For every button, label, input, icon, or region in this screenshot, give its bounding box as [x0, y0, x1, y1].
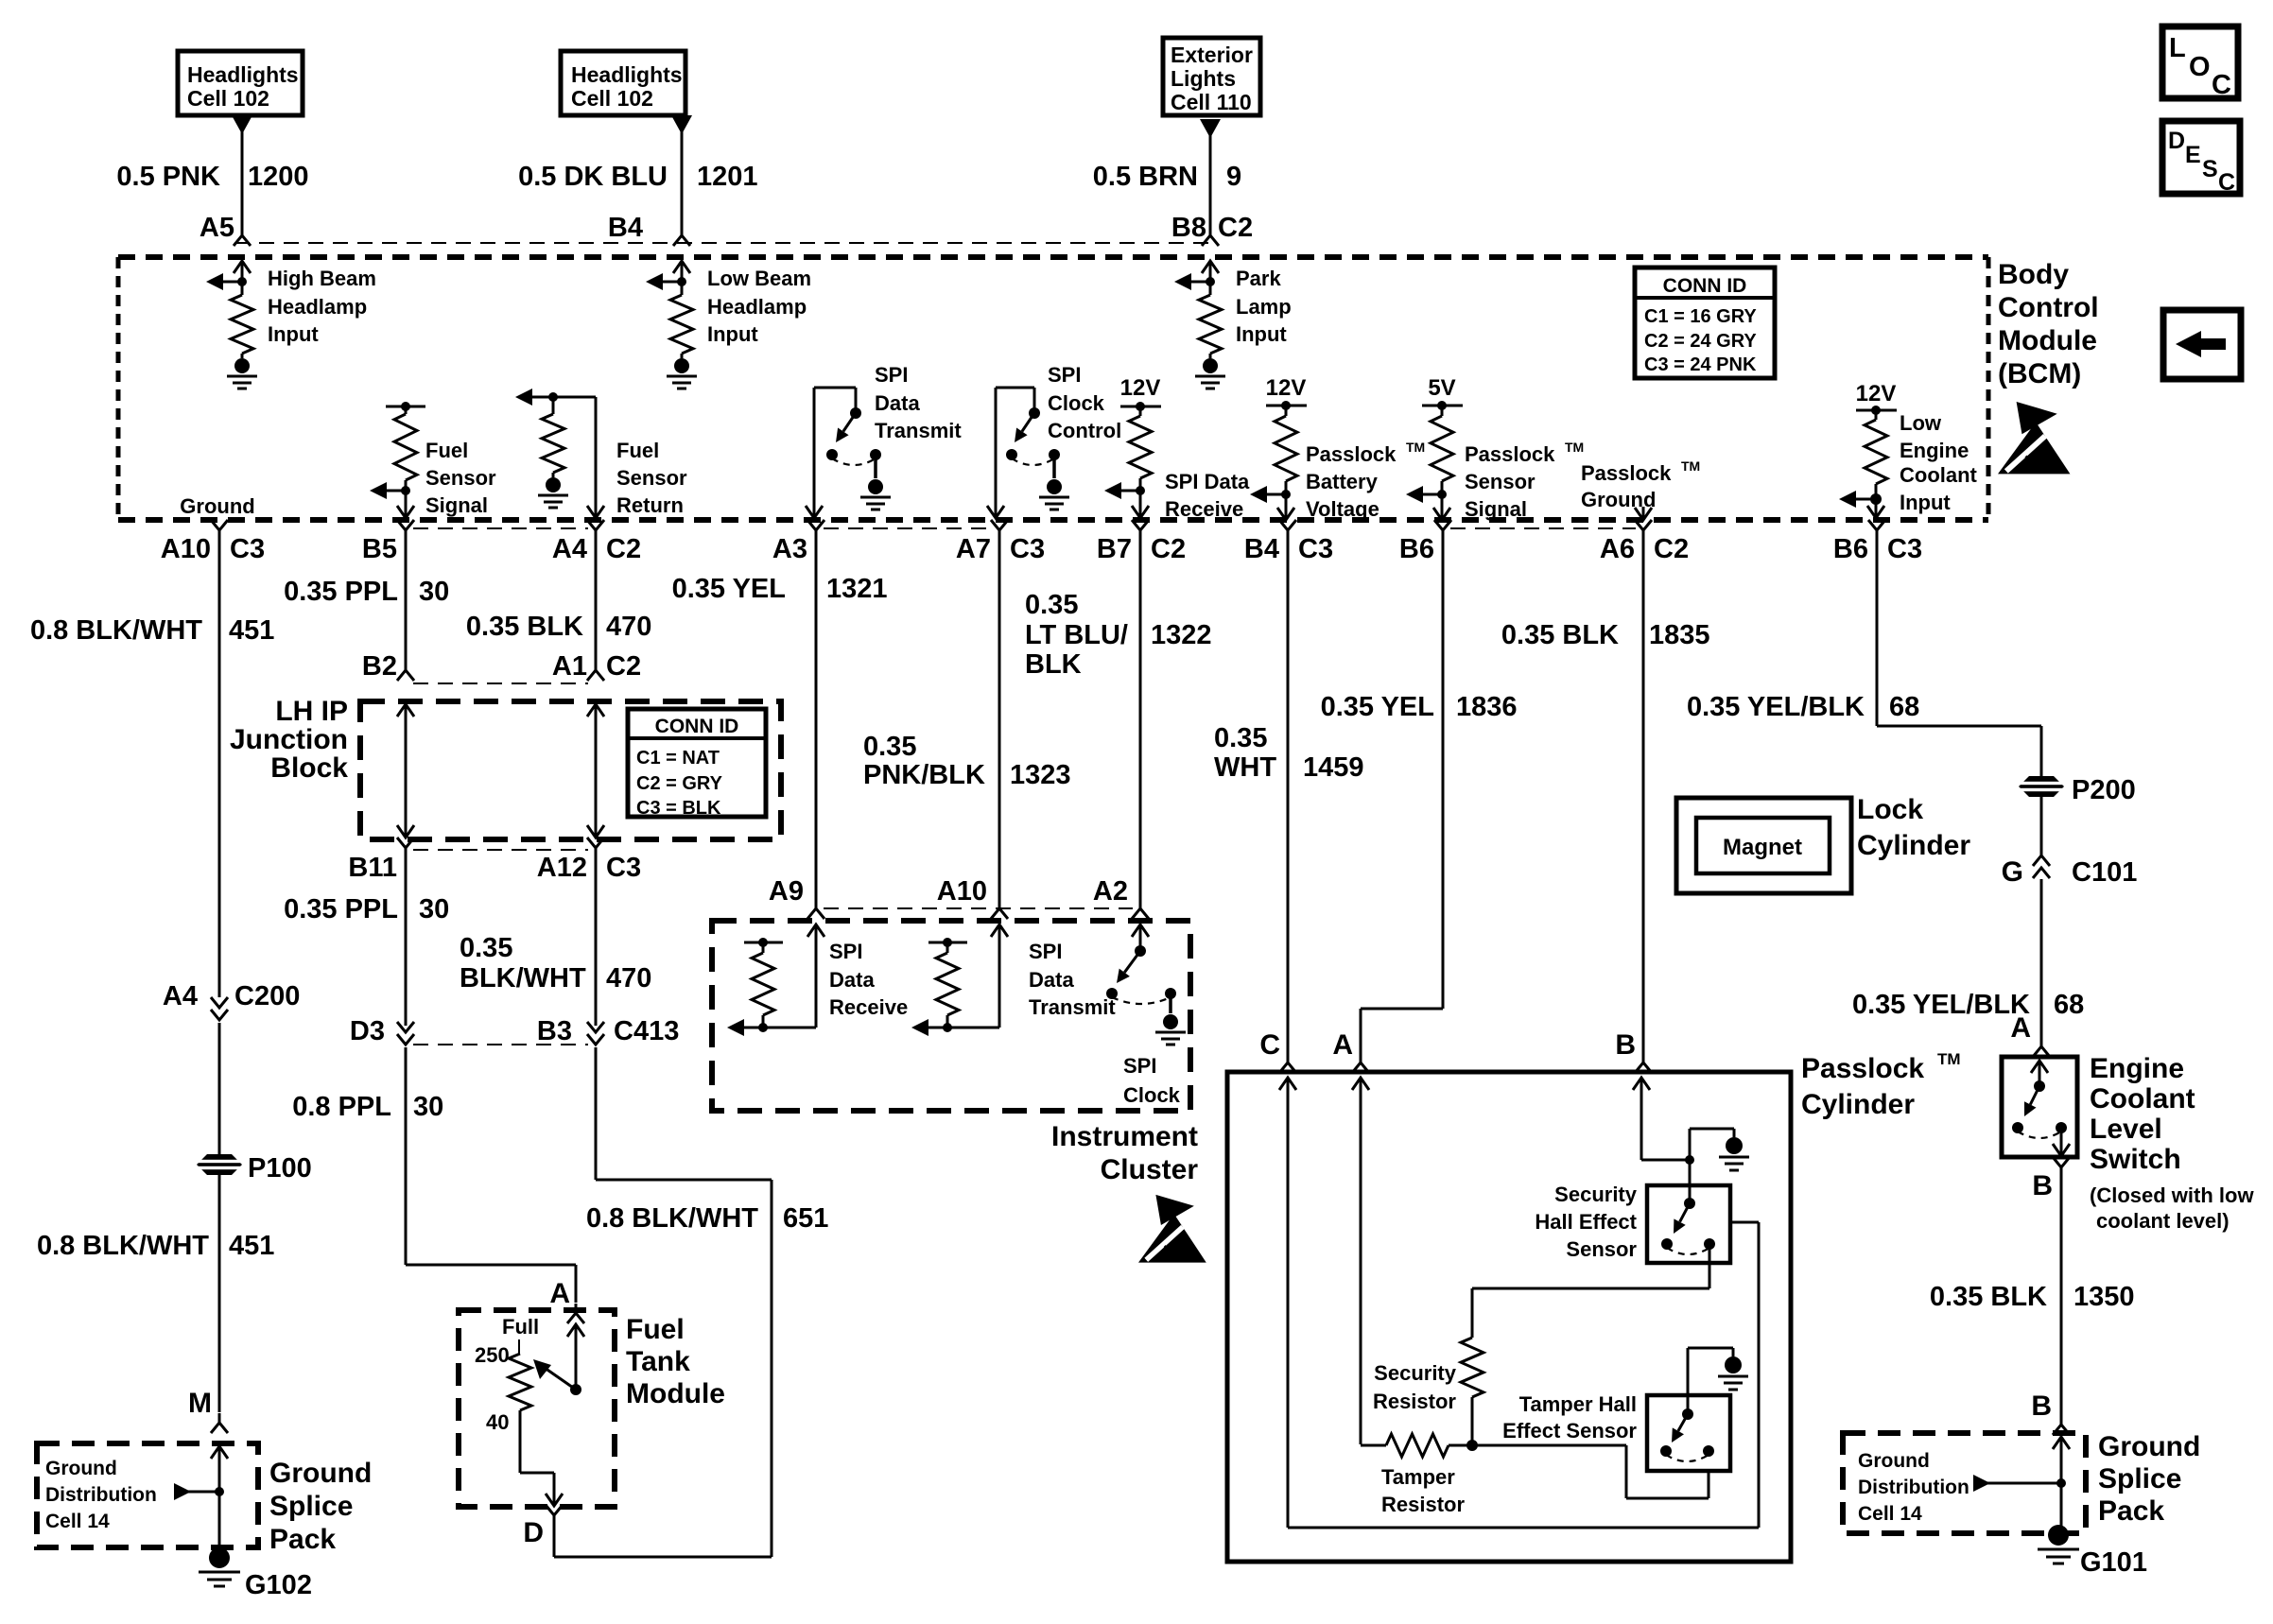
pin labels A10 C3: [161, 534, 265, 564]
label Engine Coolant Level Switch: [2090, 1053, 2195, 1175]
label 0.8 BLK/WHT (upper): [30, 615, 202, 646]
svg-text:B6: B6: [1833, 534, 1868, 564]
svg-text:C2: C2: [606, 534, 641, 564]
left arrow SPI data receive: [1104, 482, 1140, 499]
wire from D to splice 651: [554, 1525, 772, 1557]
resistor Low Engine Coolant Input: [1865, 410, 1887, 484]
pin label B4: [608, 213, 643, 243]
connector at pin A7: [991, 520, 1008, 540]
svg-text:TM: TM: [1937, 1050, 1961, 1068]
svg-text:G102: G102: [245, 1570, 312, 1600]
svg-text:Ground: Ground: [1581, 488, 1656, 511]
label 451 (lower): [229, 1231, 274, 1261]
svg-text:C: C: [2212, 70, 2231, 100]
svg-text:Input: Input: [707, 322, 758, 346]
svg-text:0.5 DK BLU: 0.5 DK BLU: [518, 162, 668, 192]
svg-text:0.35: 0.35: [1214, 723, 1267, 753]
label P100: [248, 1153, 312, 1183]
left arrow fuel sensor signal: [370, 482, 406, 499]
wire security output: [1472, 1244, 1709, 1338]
ESD sensitivity symbol (cluster): [1138, 1195, 1206, 1263]
connector at B2: [397, 661, 414, 681]
svg-text:B11: B11: [348, 853, 397, 883]
svg-text:B2: B2: [362, 651, 397, 682]
svg-text:Ground: Ground: [180, 494, 254, 518]
label 0.35 / LT BLU/ / BLK: [1025, 590, 1128, 680]
label 1835: [1649, 620, 1710, 650]
label C101: [2072, 857, 2137, 888]
label 0.35 BLK: [466, 612, 583, 642]
label 30 (mid): [419, 894, 449, 924]
pin labels B4 C3: [1244, 534, 1333, 564]
svg-text:CONN ID: CONN ID: [1663, 275, 1747, 297]
ground tap security: [1690, 1129, 1734, 1160]
ground G102: [199, 1547, 240, 1586]
switch engine coolant level: [2012, 1061, 2067, 1138]
wire SPI data transmit to pin A3: [806, 388, 856, 518]
wire/arrow Park Lamp input at B8: [1202, 261, 1219, 282]
thin connector dash line at BCM top (connector C2): [234, 242, 1216, 244]
svg-text:O: O: [2189, 52, 2211, 82]
pin label B (coolant switch): [2032, 1170, 2053, 1201]
svg-text:Engine: Engine: [2090, 1053, 2184, 1084]
pin label D3: [350, 1016, 385, 1046]
svg-text:Tamper: Tamper: [1381, 1465, 1455, 1489]
svg-text:Engine: Engine: [1900, 439, 1969, 462]
Ground Splice Pack dashed box (left): [37, 1443, 258, 1547]
label 40: [486, 1410, 509, 1434]
connector at coolant switch B: [2053, 1157, 2070, 1177]
svg-text:S: S: [2202, 156, 2218, 182]
svg-text:Ground: Ground: [1858, 1450, 1930, 1472]
junction dot ground splice (left): [215, 1487, 224, 1496]
svg-text:Sensor: Sensor: [1566, 1237, 1637, 1261]
junction dot low coolant: [1870, 484, 1882, 505]
svg-text:D3: D3: [350, 1016, 385, 1046]
svg-text:Control: Control: [1048, 419, 1121, 442]
LH IP Junction Block dashed box: [360, 701, 781, 839]
svg-text:Resistor: Resistor: [1373, 1390, 1456, 1413]
connector at pin A6: [1635, 520, 1652, 540]
thin connector dash B6-A6: [1450, 527, 1636, 529]
label SPI Data Transmit (cluster): [1029, 940, 1116, 1019]
label 30 (lower): [413, 1092, 443, 1122]
wire/arrow A2 SPI data transmit: [1132, 924, 1149, 951]
ground G101: [2038, 1525, 2079, 1564]
wire tamper line to tamper sensor: [1472, 1445, 1709, 1498]
wire from C200 to P100: [218, 1023, 221, 1154]
ground distribution arrow (left): [174, 1483, 219, 1500]
pin label B6: [1399, 534, 1434, 564]
label 0.8 BLK/WHT (lower): [37, 1231, 209, 1261]
pin label B2: [362, 651, 397, 682]
label 0.35 YEL (1836): [1321, 692, 1434, 722]
label (Closed with low coolant level): [2090, 1183, 2254, 1233]
label Ground Splice Pack (left): [269, 1458, 372, 1555]
svg-text:TM: TM: [1406, 440, 1425, 455]
svg-text:B4: B4: [1244, 534, 1279, 564]
svg-text:Cell 14: Cell 14: [45, 1511, 110, 1532]
fuel gauge wiper dot: [570, 1384, 581, 1395]
label 0.35 PPL (mid): [284, 894, 398, 924]
wire 1459 from B4 to passlock C: [1287, 540, 1290, 1054]
svg-text:0.8 PPL: 0.8 PPL: [292, 1092, 391, 1122]
svg-text:(Closed with low: (Closed with low: [2090, 1183, 2254, 1207]
DESC legend box: [2162, 121, 2240, 196]
junction dot security feed: [1685, 1155, 1694, 1165]
wire fuel sender to D: [520, 1410, 563, 1506]
svg-text:Fuel: Fuel: [425, 439, 468, 462]
wire 451 from A10 to C200: [218, 540, 221, 997]
ground at low beam resistor: [667, 354, 697, 389]
svg-text:Tank: Tank: [626, 1346, 690, 1377]
svg-text:Module: Module: [1998, 325, 2097, 356]
connector at A1: [587, 661, 604, 681]
svg-text:0.35: 0.35: [863, 732, 916, 762]
svg-text:Cell 102: Cell 102: [571, 86, 653, 111]
svg-text:Signal: Signal: [1465, 497, 1527, 521]
pin label A10 (cluster): [937, 876, 987, 907]
svg-text:TM: TM: [1681, 458, 1700, 474]
svg-text:0.35 YEL/BLK: 0.35 YEL/BLK: [1852, 990, 2030, 1020]
wire 1322 from B7 to A2: [1139, 540, 1142, 900]
svg-text:A: A: [1332, 1029, 1353, 1061]
svg-text:0.5 PNK: 0.5 PNK: [116, 162, 220, 192]
svg-text:Transmit: Transmit: [875, 419, 962, 442]
svg-text:C413: C413: [614, 1016, 679, 1046]
pin label B8: [1171, 213, 1206, 243]
svg-text:A4: A4: [552, 534, 587, 564]
ground at park lamp resistor: [1195, 354, 1225, 389]
svg-text:C3: C3: [606, 853, 641, 883]
pin labels A4 C2: [552, 534, 641, 564]
Ground Splice Pack dashed box (right): [1843, 1433, 2086, 1533]
Lock Cylinder outer box: [1676, 798, 1851, 893]
svg-text:B: B: [2031, 1391, 2052, 1422]
connector at pin B6: [1434, 520, 1451, 540]
connector at fuel tank D: [546, 1505, 563, 1525]
component box: Exterior Lights Cell 110: [1163, 38, 1260, 115]
resistor High Beam Headlamp Input: [231, 282, 253, 354]
svg-text:C3: C3: [1298, 534, 1333, 564]
svg-text:Level: Level: [2090, 1114, 2162, 1145]
left arrow passlock sensor: [1406, 486, 1442, 503]
label Passlock Cylinder: [1801, 1050, 1961, 1120]
junction dot fuel sensor signal: [401, 480, 410, 495]
pin label A1: [552, 651, 587, 682]
label 0.35 PPL (upper): [284, 577, 398, 607]
svg-text:Passlock: Passlock: [1581, 461, 1672, 485]
label 68 (lower): [2054, 990, 2084, 1020]
svg-text:G: G: [2002, 856, 2023, 888]
label 0.35 YEL/BLK (lower): [1852, 990, 2030, 1020]
svg-text:A: A: [549, 1278, 570, 1309]
svg-text:B: B: [2032, 1170, 2053, 1201]
svg-text:Passlock: Passlock: [1801, 1053, 1924, 1084]
label SPI Data Receive: [1165, 470, 1250, 521]
svg-text:0.8 BLK/WHT: 0.8 BLK/WHT: [586, 1203, 758, 1234]
connector at A12: [587, 838, 604, 857]
left-arrow legend box: [2163, 310, 2241, 379]
label 1323: [1010, 760, 1071, 790]
wire 30 from D3 to Fuel Tank pin A: [406, 1047, 576, 1303]
label 1350: [2073, 1282, 2135, 1312]
svg-text:A3: A3: [772, 534, 807, 564]
svg-text:1201: 1201: [697, 162, 758, 192]
connector at B8: [1202, 226, 1219, 246]
pin label A9: [769, 876, 804, 907]
CONN ID table (BCM right): [1635, 268, 1775, 378]
svg-text:250: 250: [475, 1343, 510, 1367]
svg-text:A1: A1: [552, 651, 587, 682]
junction dot high beam: [237, 277, 247, 286]
label Fuel Sensor Signal: [425, 439, 496, 517]
svg-text:Pack: Pack: [2098, 1495, 2164, 1527]
wire/arrow A9 SPI data receive: [763, 924, 824, 1028]
thin connector dash A3-A7: [824, 527, 992, 529]
svg-text:40: 40: [486, 1410, 509, 1434]
svg-text:Magnet: Magnet: [1723, 835, 1802, 860]
svg-text:Low: Low: [1900, 411, 1942, 435]
wire security resistor to tamper line: [1471, 1397, 1474, 1445]
resistor Fuel Sensor Signal: [394, 406, 417, 480]
svg-text:Signal: Signal: [425, 493, 488, 517]
splice P100: [195, 1154, 244, 1175]
svg-text:C101: C101: [2072, 857, 2137, 888]
switch SPI Clock Control: [1006, 407, 1060, 465]
wire fuel sensor return to pin A4: [587, 397, 604, 518]
CONN ID table (LH IP junction block): [628, 709, 766, 819]
svg-text:Low Beam: Low Beam: [707, 267, 811, 290]
svg-text:C2: C2: [606, 651, 641, 682]
svg-text:Data: Data: [1029, 968, 1074, 992]
label 0.5 BRN: [1093, 162, 1198, 192]
svg-text:A7: A7: [956, 534, 991, 564]
svg-text:0.5 BRN: 0.5 BRN: [1093, 162, 1198, 192]
svg-text:Headlights: Headlights: [187, 62, 299, 87]
connector at pin B5: [397, 520, 414, 540]
svg-text:(BCM): (BCM): [1998, 358, 2081, 389]
Security Hall Effect Sensor box: [1647, 1185, 1730, 1263]
label SPI Data Receive (cluster): [829, 940, 908, 1019]
label Instrument Cluster: [1051, 1121, 1198, 1185]
svg-text:Lock: Lock: [1857, 794, 1923, 825]
svg-text:1323: 1323: [1010, 760, 1071, 790]
svg-text:Cluster: Cluster: [1101, 1154, 1199, 1185]
svg-text:30: 30: [419, 894, 449, 924]
wire passlock ground to pin A6: [1635, 507, 1652, 520]
pin labels A6 C2: [1600, 534, 1689, 564]
wire 68 from B6/C3 to P200: [1877, 540, 2041, 776]
connector at B11: [397, 838, 414, 857]
svg-text:E: E: [2185, 142, 2201, 168]
resistor Security Resistor: [1461, 1338, 1484, 1397]
label 0.5 PNK: [116, 162, 220, 192]
arrowhead from Headlights box (left): [232, 115, 252, 134]
wire/arrow passlock C inside: [1279, 1078, 1759, 1528]
wire security feed to pivot: [1689, 1160, 1692, 1203]
svg-text:Control: Control: [1998, 292, 2099, 323]
label LH IP Junction Block: [230, 696, 348, 784]
svg-text:A6: A6: [1600, 534, 1635, 564]
pin label B5: [362, 534, 397, 564]
svg-text:Exterior: Exterior: [1171, 43, 1253, 67]
junction dot SPI data receive: [1136, 478, 1145, 495]
label C413: [614, 1016, 679, 1046]
svg-text:Cell 110: Cell 110: [1171, 90, 1252, 114]
wire/arrow A10 SPI clock: [947, 924, 1008, 1028]
wire B2 through junction block: [397, 704, 414, 838]
svg-text:1459: 1459: [1303, 752, 1364, 783]
svg-text:B: B: [1615, 1029, 1636, 1061]
pin label C2 at B8: [1218, 213, 1253, 243]
Body Control Module dashed box (BCM): [118, 257, 1988, 520]
label SPI Clock Control: [1048, 363, 1121, 442]
svg-text:C2: C2: [1218, 213, 1253, 243]
svg-text:Tamper Hall: Tamper Hall: [1519, 1392, 1637, 1416]
svg-text:Headlamp: Headlamp: [268, 295, 367, 319]
junction dot park lamp: [1206, 277, 1215, 286]
label 0.35 / PNK/BLK: [863, 732, 985, 790]
junction dot passlock sensor: [1437, 481, 1447, 499]
svg-text:0.35 BLK: 0.35 BLK: [1930, 1282, 2047, 1312]
svg-text:451: 451: [229, 1231, 274, 1261]
svg-text:Lamp: Lamp: [1236, 295, 1292, 319]
label 12V (low coolant): [1856, 381, 1897, 406]
inline connector D3: [397, 1022, 414, 1045]
switch tamper hall effect: [1660, 1408, 1714, 1461]
wire from P100 to M: [218, 1175, 221, 1412]
label 1321: [826, 574, 888, 604]
svg-text:B3: B3: [537, 1016, 572, 1046]
wire passlock battery to pin B4: [1277, 494, 1294, 520]
svg-text:Transmit: Transmit: [1029, 995, 1116, 1019]
wire 470 from A12 to B3: [595, 857, 598, 1026]
svg-text:D: D: [523, 1517, 544, 1548]
connector at pin B4: [1279, 520, 1296, 540]
svg-text:Receive: Receive: [1165, 497, 1243, 521]
svg-text:A9: A9: [769, 876, 804, 907]
label 1836: [1456, 692, 1518, 722]
left arrow high beam: [206, 273, 242, 290]
wire 651 from B3 to fuel tank D splice: [596, 1047, 772, 1557]
svg-text:SPI Data: SPI Data: [1165, 470, 1250, 493]
ground at SPI data transmit: [860, 455, 891, 510]
resistor Passlock Sensor Signal: [1431, 406, 1453, 481]
label Security Hall Effect Sensor: [1535, 1183, 1637, 1261]
wire A1 through junction block: [587, 704, 604, 838]
wire/arrow B into ground splice pack: [2053, 1437, 2070, 1535]
Fuel Tank Module dashed box: [459, 1310, 615, 1507]
svg-text:9: 9: [1226, 162, 1241, 192]
svg-text:SPI: SPI: [1048, 363, 1081, 387]
svg-text:C3: C3: [230, 534, 265, 564]
svg-text:12V: 12V: [1856, 381, 1897, 406]
svg-text:C3: C3: [1010, 534, 1045, 564]
inline connector C101: [2033, 855, 2050, 878]
svg-text:Instrument: Instrument: [1051, 1121, 1198, 1152]
svg-text:0.8 BLK/WHT: 0.8 BLK/WHT: [30, 615, 202, 646]
svg-text:B5: B5: [362, 534, 397, 564]
LOC legend box: [2162, 26, 2238, 100]
left arrow passlock battery: [1250, 486, 1286, 503]
wire 9 from Exterior Lights to BCM pin B8: [1209, 134, 1212, 227]
svg-text:Cell 14: Cell 14: [1858, 1503, 1922, 1525]
svg-text:A4: A4: [163, 981, 198, 1011]
switch SPI Data Transmit (cluster): [1106, 945, 1176, 1004]
Engine Coolant Level Switch box: [2002, 1057, 2077, 1157]
svg-text:SPI: SPI: [875, 363, 908, 387]
label P200: [2072, 775, 2136, 805]
svg-text:Full: Full: [502, 1315, 539, 1339]
label SPI Data Transmit: [875, 363, 962, 442]
wire P200 to C101: [2040, 797, 2043, 855]
svg-text:Coolant: Coolant: [1900, 463, 1978, 487]
switch security hall effect: [1661, 1198, 1715, 1254]
wire low coolant to pin B6: [1867, 499, 1884, 518]
wire 1836 from B6 to passlock A: [1361, 540, 1443, 1054]
svg-text:WHT: WHT: [1214, 752, 1276, 783]
wire/arrow passlock A inside: [1352, 1078, 1369, 1444]
arrowhead from Headlights box (center): [671, 115, 692, 134]
svg-text:Junction: Junction: [230, 724, 348, 755]
label 0.35 YEL (1321): [672, 574, 786, 604]
svg-text:Park: Park: [1236, 267, 1281, 290]
label 651: [783, 1203, 828, 1234]
junction dot low beam: [677, 277, 686, 286]
svg-text:12V: 12V: [1120, 375, 1161, 401]
Instrument Cluster dashed box: [712, 921, 1190, 1111]
wire SPI clock control to pin A7: [987, 388, 1034, 518]
label Fuel Tank Module: [626, 1314, 725, 1409]
svg-text:0.35 PPL: 0.35 PPL: [284, 577, 398, 607]
label 470 (upper): [606, 612, 651, 642]
switch SPI Data Transmit: [826, 407, 881, 465]
resistor Park Lamp Input: [1199, 282, 1222, 354]
junction dot security/tamper: [1466, 1440, 1478, 1451]
svg-text:Pack: Pack: [269, 1524, 336, 1555]
svg-text:Cell 102: Cell 102: [187, 86, 269, 111]
thin connector dash B2-A1 (sub-box bottom): [413, 682, 588, 684]
label Low Beam Headlamp Input: [707, 267, 811, 346]
svg-text:Headlights: Headlights: [571, 62, 683, 87]
ground at SPI clock control: [1039, 455, 1069, 510]
svg-text:Receive: Receive: [829, 995, 908, 1019]
svg-text:M: M: [188, 1388, 212, 1419]
svg-text:Cylinder: Cylinder: [1857, 830, 1970, 861]
wire 1201 from Headlights to BCM pin B4: [681, 130, 684, 227]
label 0.35 YEL/BLK (upper): [1687, 692, 1865, 722]
label 250: [475, 1343, 510, 1367]
ground tap tamper: [1688, 1348, 1733, 1414]
connector at ground splice B: [2053, 1415, 2070, 1435]
svg-text:B8: B8: [1171, 213, 1206, 243]
label 12V (SPI data receive): [1120, 375, 1161, 401]
svg-text:B6: B6: [1399, 534, 1434, 564]
label 0.35 BLK (1835): [1501, 620, 1619, 650]
label Passlock Battery Voltage: [1306, 440, 1425, 521]
connector at M: [211, 1413, 228, 1433]
svg-text:C2: C2: [1654, 534, 1689, 564]
junction dot ground splice (right): [2056, 1478, 2066, 1488]
connector at passlock B: [1635, 1053, 1652, 1073]
pin label B (passlock): [1615, 1029, 1636, 1061]
connector at A5: [234, 226, 251, 246]
svg-text:C1 = 16 GRY: C1 = 16 GRY: [1644, 306, 1757, 327]
svg-text:0.35 YEL: 0.35 YEL: [1321, 692, 1434, 722]
svg-text:Data: Data: [875, 391, 920, 415]
svg-text:Fuel: Fuel: [616, 439, 659, 462]
